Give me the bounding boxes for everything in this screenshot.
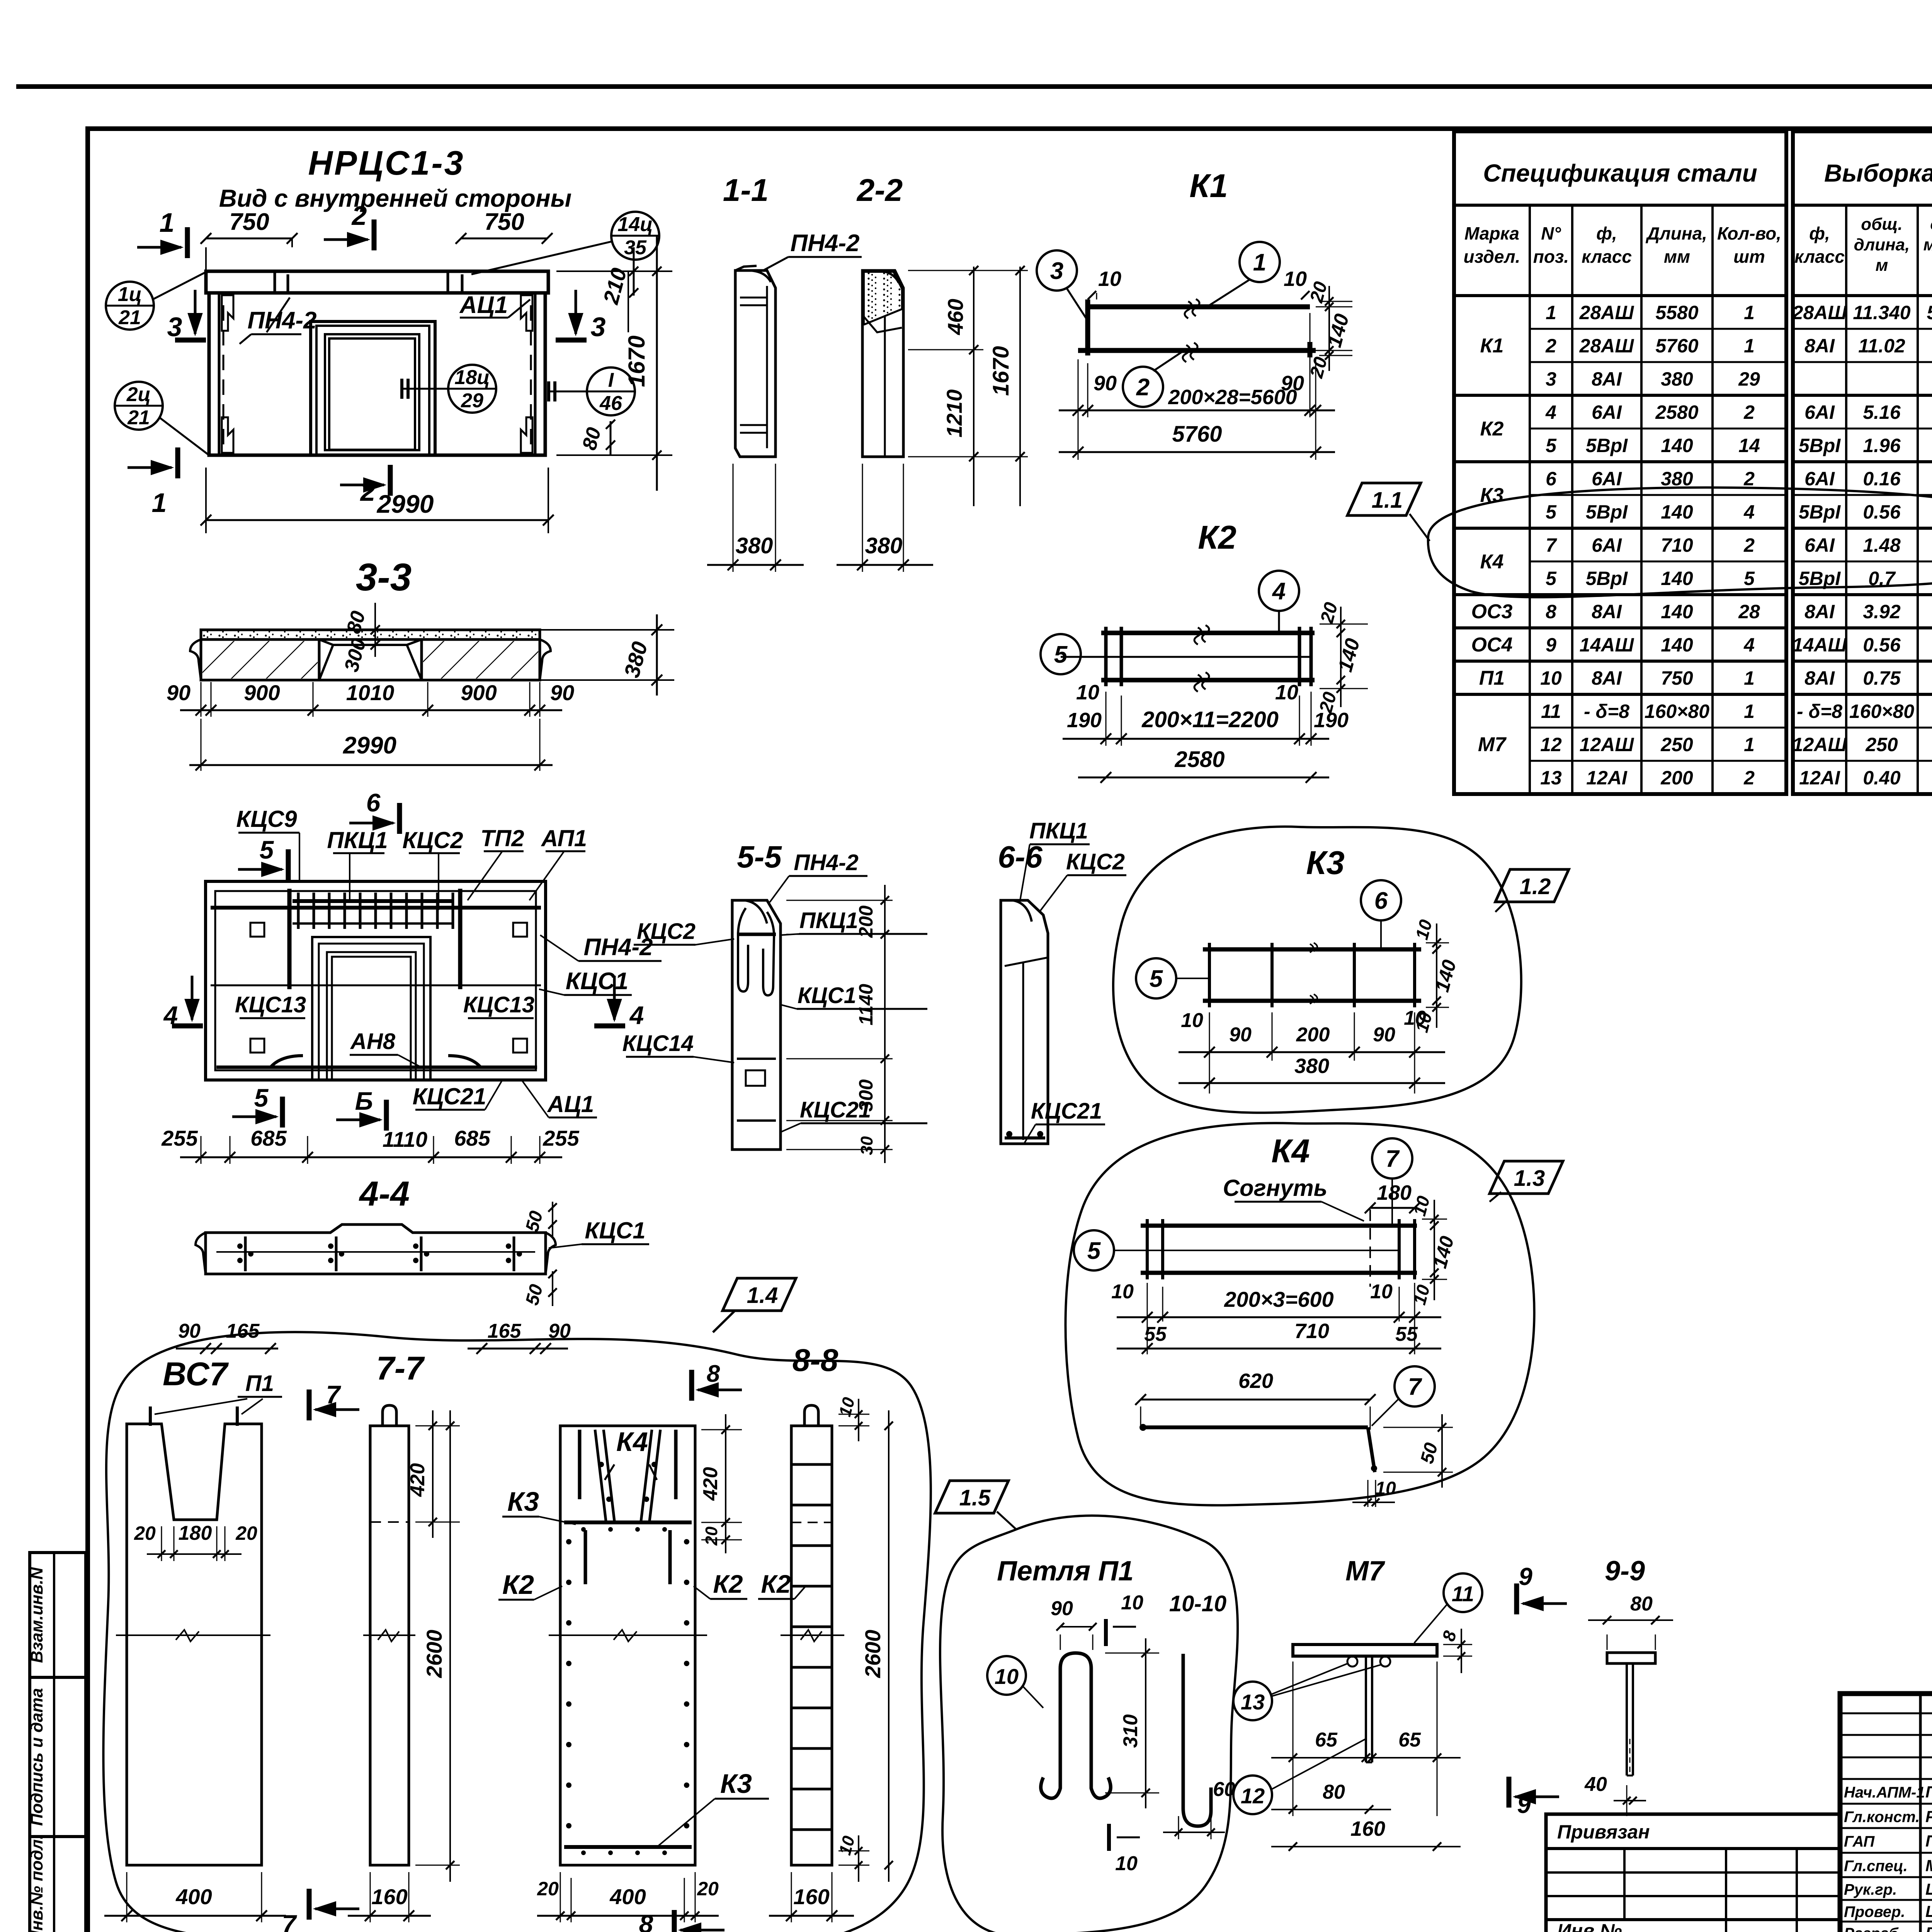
section mark 2 bottom (388, 465, 393, 496)
M7 dim 8 (1443, 1644, 1472, 1645)
M7 callout 13 (1233, 1682, 1272, 1720)
svg-text:ф,: ф, (1596, 223, 1617, 243)
dim 380 under 1-1 (733, 464, 734, 572)
svg-text:общ.: общ. (1930, 215, 1932, 234)
svg-text:5.16: 5.16 (1863, 401, 1901, 423)
dim 2990 bottom (206, 519, 548, 521)
svg-text:1: 1 (1546, 302, 1556, 323)
svg-text:0.56: 0.56 (1863, 634, 1901, 656)
svg-text:160×80: 160×80 (1645, 701, 1709, 722)
K cage outline (560, 1426, 695, 1865)
svg-text:1.48: 1.48 (1863, 534, 1901, 556)
svg-text:1: 1 (1744, 734, 1755, 755)
svg-text:К4: К4 (1271, 1133, 1310, 1170)
svg-text:20: 20 (697, 1878, 719, 1900)
K4 cage top (595, 1430, 606, 1521)
K4 callout 7b (1395, 1366, 1435, 1406)
M7 dim 160 (1271, 1846, 1461, 1847)
bottom bar KЦС21 (216, 1066, 537, 1069)
K3 flag 1.2 (1495, 869, 1569, 902)
svg-text:21: 21 (127, 406, 150, 429)
left side stamp boxes (30, 1553, 86, 1932)
K1 dims right 20 140 20 (1319, 301, 1352, 302)
svg-text:200: 200 (1296, 1024, 1330, 1046)
svg-text:5: 5 (1054, 641, 1068, 668)
svg-text:28АШ: 28АШ (1579, 302, 1634, 323)
svg-text:К4: К4 (616, 1427, 648, 1457)
title block left part (1919, 1694, 1922, 1932)
svg-text:мм: мм (1664, 247, 1690, 267)
svg-text:250: 250 (1660, 734, 1693, 755)
svg-text:КЦС2: КЦС2 (402, 827, 463, 853)
svg-text:1.4: 1.4 (747, 1283, 778, 1308)
svg-text:750: 750 (229, 209, 269, 235)
horizontal mid bar KЦС1 (211, 985, 541, 986)
svg-text:8АI: 8АI (1592, 601, 1622, 622)
svg-text:160: 160 (371, 1884, 407, 1909)
svg-text:К2: К2 (1480, 418, 1504, 440)
svg-text:1: 1 (160, 207, 175, 238)
svg-text:2600: 2600 (861, 1630, 885, 1679)
svg-text:1: 1 (1253, 249, 1266, 276)
svg-text:2990: 2990 (376, 490, 434, 518)
callout I/46 (587, 367, 635, 415)
svg-text:14АШ: 14АШ (1580, 634, 1634, 656)
9-9 T-shape (1607, 1653, 1655, 1663)
svg-text:380: 380 (736, 533, 773, 558)
bottom dims 90 900 1010 900 90 (180, 709, 562, 711)
K cage break (549, 1634, 707, 1636)
svg-text:685: 685 (454, 1126, 490, 1150)
svg-text:6АI: 6АI (1592, 534, 1622, 556)
top mesh bars (211, 906, 541, 910)
section mark 1 bottom (175, 447, 180, 478)
K1 callout 2 (1123, 367, 1163, 407)
svg-text:1.1: 1.1 (1372, 488, 1403, 513)
svg-text:7: 7 (1386, 1146, 1400, 1172)
svg-text:7: 7 (1408, 1374, 1422, 1400)
reinf door U-frames (312, 937, 430, 1080)
svg-text:7: 7 (282, 1910, 298, 1932)
svg-text:40: 40 (1584, 1773, 1607, 1796)
svg-text:Ципляев: Ципляев (1925, 1902, 1932, 1920)
svg-text:3.92: 3.92 (1863, 601, 1901, 622)
dim 380 right (541, 629, 674, 631)
svg-text:190: 190 (1067, 709, 1102, 732)
svg-text:2580: 2580 (1174, 747, 1225, 772)
svg-text:К2: К2 (713, 1570, 743, 1598)
svg-text:10: 10 (1275, 681, 1298, 704)
svg-text:90: 90 (178, 1320, 201, 1342)
svg-text:6: 6 (366, 788, 381, 817)
svg-text:Разраб: Разраб (1844, 1925, 1899, 1932)
table spec stali (1454, 131, 1786, 794)
svg-text:420: 420 (699, 1467, 722, 1501)
svg-text:6АI: 6АI (1592, 401, 1622, 423)
svg-text:0.40: 0.40 (1863, 767, 1901, 789)
K1 callout 1 (1240, 242, 1280, 282)
svg-text:420: 420 (406, 1463, 429, 1497)
svg-text:2: 2 (1743, 767, 1755, 789)
8-8 rails (791, 1426, 832, 1865)
K1 dim 90 200x28=5600 (1078, 359, 1079, 460)
svg-text:4-4: 4-4 (359, 1175, 410, 1213)
svg-text:издел.: издел. (1464, 247, 1520, 267)
svg-text:60: 60 (1213, 1778, 1235, 1801)
svg-text:5580: 5580 (1655, 302, 1698, 323)
svg-text:К3: К3 (720, 1769, 752, 1799)
10 bottom mark (1107, 1824, 1111, 1851)
svg-text:10: 10 (1540, 667, 1562, 689)
svg-text:КЦС9: КЦС9 (236, 806, 297, 832)
svg-text:класс: класс (1794, 247, 1845, 267)
svg-text:10: 10 (1284, 267, 1307, 291)
dim 80 300 vertical (374, 603, 376, 657)
svg-text:10: 10 (1370, 1281, 1393, 1303)
svg-text:160: 160 (793, 1884, 829, 1909)
svg-text:Кол-во,: Кол-во, (1717, 223, 1781, 243)
svg-text:12АШ: 12АШ (1580, 734, 1634, 755)
section 1-1 body (735, 270, 776, 457)
svg-text:6АI: 6АI (1804, 468, 1835, 490)
K1 dim 5760 (1059, 451, 1335, 453)
svg-text:8: 8 (707, 1361, 720, 1387)
svg-text:КЦС13: КЦС13 (463, 992, 534, 1017)
svg-text:90: 90 (1051, 1597, 1073, 1620)
svg-text:750: 750 (1661, 667, 1693, 689)
svg-text:4: 4 (1545, 401, 1556, 423)
svg-text:29: 29 (1738, 368, 1760, 390)
svg-text:6: 6 (1374, 888, 1388, 914)
svg-text:Прощляков: Прощляков (1925, 1832, 1932, 1850)
K4 dim 50 (1383, 1427, 1453, 1428)
privyazan table (1546, 1814, 1840, 1932)
svg-text:11.02: 11.02 (1858, 335, 1905, 357)
П1 loop shape (1041, 1653, 1111, 1798)
svg-text:АП1: АП1 (541, 825, 587, 851)
svg-text:1-1: 1-1 (723, 173, 769, 208)
svg-text:160: 160 (1350, 1817, 1385, 1840)
svg-text:20: 20 (537, 1878, 559, 1900)
K4 right dims 10 140 10 (1422, 1219, 1447, 1220)
svg-text:1670: 1670 (624, 335, 650, 387)
svg-text:165: 165 (226, 1320, 260, 1342)
right dims 210 1670 80 (628, 271, 629, 332)
svg-text:1: 1 (1744, 701, 1755, 722)
svg-text:1: 1 (1744, 667, 1755, 689)
svg-text:180: 180 (1377, 1181, 1412, 1204)
svg-text:Выборка стали: Выборка стали (1824, 159, 1932, 187)
svg-text:класс: класс (1582, 247, 1632, 267)
svg-text:20: 20 (702, 1526, 721, 1546)
svg-text:Провер.: Провер. (1844, 1903, 1905, 1920)
svg-text:3: 3 (167, 312, 182, 342)
svg-text:К3: К3 (1306, 845, 1345, 881)
svg-text:М7: М7 (1478, 733, 1507, 756)
M7 plate (1293, 1645, 1437, 1656)
callout 2ц/21 (115, 382, 163, 430)
svg-text:28: 28 (1738, 601, 1760, 622)
svg-text:900: 900 (461, 680, 497, 705)
svg-text:К2: К2 (761, 1570, 791, 1598)
svg-text:80: 80 (1630, 1593, 1653, 1615)
svg-text:масса,: масса, (1923, 235, 1932, 254)
4-4 body (206, 1225, 546, 1274)
svg-text:12АШ: 12АШ (1793, 734, 1847, 755)
K1 callout 3 (1037, 250, 1077, 291)
svg-text:30: 30 (857, 1136, 876, 1155)
svg-text:65: 65 (1315, 1729, 1338, 1751)
section mark 3 right (556, 338, 587, 343)
section 3-3 hatched body left (201, 639, 319, 680)
svg-text:2: 2 (360, 476, 376, 507)
flag 1.5 (935, 1481, 1009, 1513)
K2 dim 2580 (1078, 777, 1329, 779)
svg-text:Радашкевич: Радашкевич (1925, 1808, 1932, 1826)
flag 1.4 (723, 1278, 796, 1311)
svg-text:1670: 1670 (988, 346, 1014, 396)
svg-text:Согнуть: Согнуть (1223, 1175, 1328, 1201)
svg-text:5: 5 (1546, 501, 1557, 523)
svg-text:180: 180 (179, 1522, 212, 1544)
svg-text:10: 10 (1181, 1009, 1203, 1032)
VS7 column (127, 1424, 262, 1865)
svg-text:0.75: 0.75 (1863, 667, 1901, 689)
K4 flag 1.3 (1490, 1161, 1563, 1194)
svg-text:2: 2 (1743, 468, 1755, 490)
svg-text:5-5: 5-5 (737, 840, 782, 874)
K2 dims right 20 140 20 (1320, 624, 1368, 625)
svg-text:2580: 2580 (1655, 401, 1698, 423)
title block outer (1840, 1694, 1932, 1932)
svg-text:7: 7 (326, 1380, 342, 1409)
svg-text:9: 9 (1519, 1563, 1532, 1590)
oval around K3 K4 rows (1428, 488, 1932, 597)
left end notch (190, 639, 201, 680)
vertical bars TP2 AP1 (287, 889, 292, 989)
svg-text:21: 21 (118, 306, 141, 329)
svg-text:28АШ: 28АШ (1792, 302, 1847, 323)
svg-text:14ц: 14ц (617, 213, 653, 236)
svg-text:1010: 1010 (346, 680, 395, 705)
svg-text:5: 5 (1150, 966, 1163, 992)
svg-text:КЦС2: КЦС2 (1066, 849, 1125, 874)
svg-text:АЦ1: АЦ1 (547, 1091, 594, 1117)
svg-text:5ВрI: 5ВрI (1586, 501, 1628, 523)
svg-text:ПН4-2: ПН4-2 (248, 307, 317, 334)
section 8 marks (689, 1370, 694, 1401)
K2 callout 4 (1259, 571, 1299, 611)
svg-text:Рук.гр.: Рук.гр. (1844, 1881, 1897, 1898)
svg-text:1: 1 (1744, 335, 1755, 357)
dim 750 right (461, 238, 547, 240)
svg-text:10: 10 (1076, 681, 1099, 704)
svg-text:65: 65 (1398, 1729, 1421, 1751)
svg-text:Взам.инв.N: Взам.инв.N (27, 1567, 46, 1663)
svg-text:К2: К2 (502, 1570, 534, 1600)
svg-text:8: 8 (1546, 601, 1556, 622)
callout 18ц/29 (448, 365, 496, 413)
5-5 body (732, 900, 781, 1150)
svg-text:10-10: 10-10 (1169, 1591, 1226, 1616)
svg-text:Гл.конст.: Гл.конст. (1844, 1809, 1920, 1826)
K3 right dims 10 140 10 (1426, 942, 1449, 944)
svg-text:2600: 2600 (422, 1630, 446, 1679)
svg-text:5760: 5760 (1655, 335, 1698, 357)
AH8 hooks (270, 1056, 303, 1067)
svg-text:20: 20 (235, 1522, 257, 1544)
K2 bars (1101, 631, 1315, 635)
K3 ladder (1203, 947, 1421, 952)
svg-text:250: 250 (1865, 734, 1898, 755)
K1 break marks (1185, 299, 1199, 318)
svg-text:190: 190 (1314, 709, 1349, 732)
svg-text:ПКЦ1: ПКЦ1 (1029, 818, 1088, 844)
svg-text:200×3=600: 200×3=600 (1224, 1287, 1333, 1311)
svg-text:4: 4 (1743, 501, 1755, 523)
svg-text:ПКЦ1: ПКЦ1 (327, 827, 388, 853)
svg-text:ПКЦ1: ПКЦ1 (799, 908, 858, 933)
svg-text:Спецификация стали: Спецификация стали (1483, 159, 1757, 187)
svg-text:Волохович: Волохович (1925, 1924, 1932, 1932)
svg-text:380: 380 (865, 533, 903, 558)
svg-text:- δ=8: - δ=8 (1797, 701, 1842, 722)
K3 callout 5 (1136, 958, 1176, 998)
svg-text:8АI: 8АI (1804, 601, 1835, 622)
svg-text:К2: К2 (1198, 519, 1236, 556)
svg-text:1140: 1140 (855, 984, 877, 1026)
svg-text:12: 12 (1540, 734, 1562, 755)
svg-text:6АI: 6АI (1592, 468, 1622, 490)
4-4 bottom dims (176, 1348, 278, 1350)
svg-text:К1: К1 (1480, 335, 1504, 357)
section 3-3 facade strip (201, 630, 540, 639)
svg-text:55: 55 (1395, 1323, 1418, 1345)
svg-text:35: 35 (624, 236, 647, 259)
svg-text:2: 2 (351, 201, 367, 231)
svg-text:1.96: 1.96 (1863, 435, 1901, 456)
svg-text:10: 10 (995, 1664, 1019, 1689)
svg-text:5760: 5760 (1172, 422, 1222, 447)
6-6 body (1001, 900, 1048, 1144)
svg-text:2ц: 2ц (126, 383, 151, 406)
svg-text:14: 14 (1738, 435, 1760, 456)
svg-text:Вид с внутренней стороны: Вид с внутренней стороны (219, 184, 572, 212)
svg-text:750: 750 (484, 209, 524, 235)
svg-text:Инв.№: Инв.№ (1557, 1920, 1622, 1932)
svg-text:10: 10 (1121, 1592, 1143, 1614)
svg-text:90: 90 (550, 680, 574, 705)
svg-text:6АI: 6АI (1804, 534, 1835, 556)
svg-text:Марка: Марка (1464, 223, 1519, 243)
svg-text:К1: К1 (1189, 168, 1228, 204)
svg-text:13: 13 (1540, 767, 1562, 789)
svg-text:длина,: длина, (1854, 235, 1910, 254)
svg-text:НРЦС1-3: НРЦС1-3 (308, 144, 464, 182)
svg-text:КЦС21: КЦС21 (413, 1083, 486, 1109)
dim 310 (1105, 1653, 1159, 1654)
svg-text:1210: 1210 (942, 389, 966, 438)
svg-text:АН8: АН8 (350, 1029, 396, 1054)
svg-text:685: 685 (250, 1126, 287, 1150)
vertical dims 460 1210 1670 between 2-2 and K1 (973, 267, 975, 506)
K1 top bar pos1 (1088, 304, 1310, 310)
VS7 dim 400 (126, 1872, 128, 1922)
K1 bottom bar pos2 (1078, 348, 1316, 353)
svg-text:20: 20 (134, 1522, 156, 1544)
svg-text:200×11=2200: 200×11=2200 (1141, 707, 1279, 732)
svg-text:28АШ: 28АШ (1579, 335, 1634, 357)
svg-text:14АШ: 14АШ (1793, 634, 1847, 656)
svg-text:8АI: 8АI (1592, 368, 1622, 390)
svg-text:140: 140 (1661, 634, 1693, 656)
svg-text:46: 46 (599, 392, 622, 415)
svg-text:5: 5 (260, 835, 274, 864)
K3 callout 6 (1361, 880, 1401, 920)
svg-text:Печерин: Печерин (1925, 1783, 1932, 1801)
svg-text:I: I (608, 369, 614, 391)
svg-text:П1: П1 (245, 1371, 274, 1396)
K1 left bar pos3 (1085, 299, 1090, 355)
svg-text:12АI: 12АI (1799, 767, 1840, 789)
svg-text:М7: М7 (1345, 1556, 1385, 1587)
svg-text:90: 90 (1373, 1024, 1395, 1046)
K3 bar (564, 1520, 692, 1524)
4-4 dims 50 50 (552, 1202, 553, 1236)
svg-text:ОС4: ОС4 (1471, 634, 1513, 656)
svg-text:П1: П1 (1479, 667, 1505, 689)
corner anchor marks (222, 295, 233, 331)
svg-text:1ц: 1ц (118, 283, 142, 306)
svg-text:8-8: 8-8 (793, 1343, 838, 1378)
svg-text:400: 400 (609, 1884, 646, 1909)
svg-text:5: 5 (1744, 568, 1755, 589)
4-4 rebar dots (244, 1236, 247, 1271)
K cage bottom bar (564, 1845, 692, 1849)
svg-text:КЦС1: КЦС1 (566, 968, 629, 995)
flag 1.1 (1347, 483, 1421, 515)
7-7 body (370, 1426, 409, 1865)
svg-text:54.77: 54.77 (1927, 302, 1932, 323)
svg-text:11: 11 (1452, 1582, 1474, 1606)
svg-text:5: 5 (254, 1083, 269, 1112)
blob 1.4 outline (104, 1332, 931, 1932)
svg-text:13: 13 (1241, 1690, 1265, 1714)
sheet top edge line (16, 84, 1932, 89)
svg-text:90: 90 (167, 680, 190, 705)
K2 break marks (1194, 625, 1209, 645)
svg-text:6: 6 (1546, 468, 1557, 490)
svg-text:3: 3 (1050, 258, 1063, 284)
svg-text:90: 90 (1094, 372, 1117, 395)
svg-text:1.3: 1.3 (1514, 1166, 1545, 1191)
svg-text:3-3: 3-3 (356, 556, 412, 599)
svg-text:Инв.№ подл.: Инв.№ подл. (27, 1835, 46, 1932)
8-8 break (781, 1634, 844, 1636)
5-5 dims right 200 1140 300 30 (786, 900, 893, 901)
svg-text:2: 2 (1136, 374, 1150, 401)
svg-text:140: 140 (1661, 568, 1693, 589)
panel body (209, 293, 545, 455)
K4 blob outline (1066, 1123, 1534, 1505)
svg-text:5ВрI: 5ВрI (1799, 501, 1841, 523)
svg-text:710: 710 (1294, 1320, 1329, 1343)
svg-text:200: 200 (855, 905, 877, 938)
svg-text:12АI: 12АI (1586, 767, 1628, 789)
M7 bolts (1347, 1656, 1357, 1667)
svg-text:12: 12 (1241, 1784, 1265, 1808)
svg-text:- δ=8: - δ=8 (1584, 701, 1629, 722)
